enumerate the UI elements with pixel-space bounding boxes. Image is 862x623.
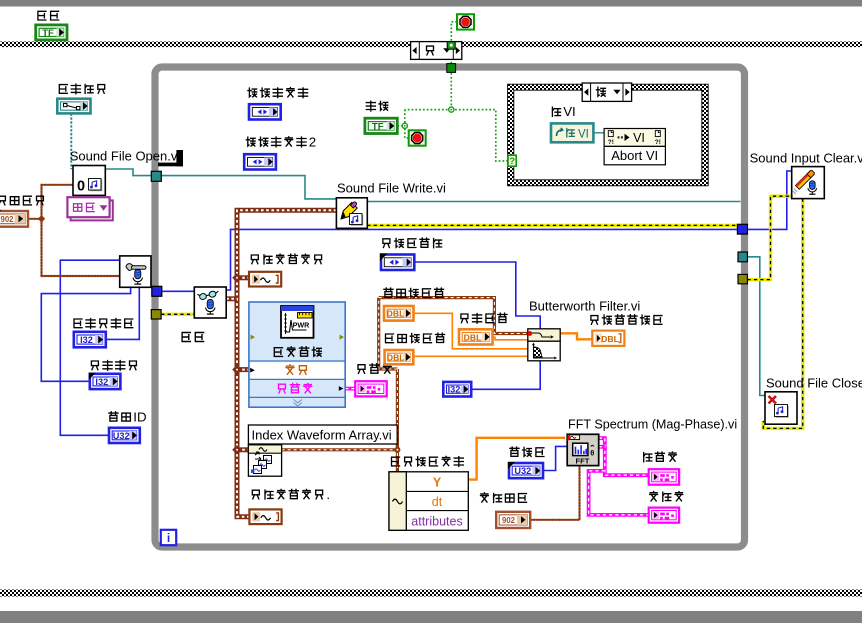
FFT Spectrum node icon bbox=[567, 434, 599, 465]
write mode ring constant (shadowed) bbox=[71, 200, 113, 220]
wire: blue task ID tunnel to Sound Input Read bbox=[162, 290, 195, 292]
TF control qidong (start) bbox=[36, 25, 67, 40]
Sound Input Clear icon bbox=[792, 167, 825, 199]
invoke node Abort VI bbox=[604, 129, 665, 147]
svg-text:PWR: PWR bbox=[293, 321, 311, 330]
svg-text:ID: ID bbox=[133, 409, 146, 424]
wire: green dotted from TF stop terminal bbox=[397, 125, 404, 127]
express VI side arrows bbox=[251, 335, 255, 340]
black corner bracket next to label bbox=[176, 150, 183, 166]
I32 order constant bbox=[443, 382, 471, 397]
wire: teal refnum Sound File Write to loop border bbox=[367, 201, 740, 203]
label device ID bbox=[109, 412, 118, 421]
wire: blue sample mode I32 to configure node bbox=[41, 287, 130, 381]
svg-text:dt: dt bbox=[432, 495, 443, 509]
wire: yellow-black dashed task id tunnel to Sound Input Read bbox=[161, 313, 194, 316]
wire: brown waveform jog bbox=[379, 298, 398, 369]
express VI icon PWR bbox=[281, 306, 314, 338]
wire: orange filtered waveform filter to indicator bbox=[560, 333, 592, 339]
svg-text:attributes: attributes bbox=[411, 514, 462, 528]
express VI title text bbox=[274, 348, 282, 357]
DBL low cutoff bbox=[385, 350, 414, 364]
label tab control bbox=[248, 88, 257, 97]
wire: brown waveform across to filter bbox=[379, 298, 528, 334]
label benVI bbox=[552, 107, 560, 116]
wire: file path (teal dashed) from path control to Sound File Open bbox=[70, 114, 72, 170]
wire: green dotted junction to stop terminal branch bbox=[405, 109, 452, 111]
while loop border bbox=[155, 67, 745, 547]
svg-text:Y: Y bbox=[433, 475, 442, 489]
label power spectrum (indicator) bbox=[358, 365, 365, 374]
while loop tunnel blue right bbox=[737, 224, 747, 234]
stop button icon top bbox=[457, 14, 474, 29]
wire: blue task ID Sound Input Read along loop to right tunnel bbox=[226, 229, 737, 290]
averaging parameters enum bbox=[496, 512, 530, 528]
while loop tunnel teal left bbox=[151, 171, 161, 181]
label file path bbox=[59, 85, 67, 94]
wire: brown waveform Index Waveform Array output bbox=[282, 448, 398, 451]
svg-text:Sound File Write.vi: Sound File Write.vi bbox=[337, 180, 446, 195]
svg-text:Index Waveform Array.vi: Index Waveform Array.vi bbox=[252, 427, 392, 442]
svg-text:DBL: DBL bbox=[387, 309, 405, 319]
wire: brown dotted to Sound File Open bbox=[42, 184, 74, 186]
wire: magenta phase out stub bbox=[599, 445, 605, 449]
? tunnel on inner case bbox=[508, 155, 516, 166]
wire: brown dotted riser bbox=[40, 185, 42, 276]
outer case selector label (false) bbox=[411, 42, 462, 60]
tab control terminal 1 bbox=[249, 104, 281, 119]
sound format enum constant bbox=[0, 211, 28, 227]
svg-text:Sound Input Clear.vi: Sound Input Clear.vi bbox=[750, 150, 862, 165]
label get waveform components bbox=[392, 457, 400, 466]
wire: orange low cutoff DBL to filter bbox=[414, 355, 528, 357]
svg-text:Sound File Open.vi: Sound File Open.vi bbox=[70, 148, 181, 163]
Butterworth Filter icon bbox=[528, 329, 560, 341]
wire: blue num channels I32 to configure node bbox=[106, 287, 140, 339]
power spectrum cluster indicator bbox=[355, 381, 387, 396]
label tab control 2 bbox=[246, 137, 255, 146]
wire: blue window U32 to FFT node bbox=[543, 446, 567, 470]
svg-text:.: . bbox=[326, 487, 330, 502]
svg-text:?!: ?! bbox=[655, 139, 661, 146]
while loop tunnel green solid bbox=[447, 64, 456, 73]
label qidong bbox=[38, 11, 46, 20]
wire: brown branch to Index Waveform Array bbox=[237, 447, 248, 452]
junction diamond brown 2 bbox=[232, 365, 242, 375]
wire: teal refnum Sound File Open to Sound File Write bbox=[105, 169, 336, 199]
label filter type bbox=[383, 239, 390, 248]
svg-text:I32: I32 bbox=[80, 335, 93, 345]
wire: orange Y component to FFT node bbox=[468, 438, 565, 480]
acquired signal waveform indicator bbox=[249, 272, 281, 287]
svg-text:U32: U32 bbox=[113, 431, 130, 441]
wire: brown branch Sound Input Read output to trunk bbox=[226, 296, 237, 301]
magnitude spectrum cluster indicator bbox=[649, 469, 679, 485]
tab control terminal 2 bbox=[244, 154, 276, 169]
while loop iteration terminal i bbox=[161, 530, 176, 545]
svg-text:FFT: FFT bbox=[576, 457, 590, 466]
junction node green 1 bbox=[449, 107, 454, 112]
expand chevron bbox=[294, 400, 302, 406]
label high cutoff bbox=[384, 288, 393, 297]
wire: blue device ID U32 to configure node bbox=[60, 260, 119, 435]
inner case selector label (true) bbox=[582, 83, 631, 101]
filtered waveform DBL array indicator bbox=[592, 331, 624, 346]
svg-text:DBL: DBL bbox=[464, 332, 482, 342]
svg-text:Butterworth Filter.vi: Butterworth Filter.vi bbox=[529, 299, 640, 314]
Sound Input Read icon bbox=[194, 287, 226, 318]
wire: green dotted down to red stop button 2 bbox=[405, 110, 409, 138]
DBL sampling frequency bbox=[459, 329, 493, 344]
wire: brown waveform riser to get waveform components bbox=[396, 369, 399, 472]
Index Waveform Array label box bbox=[248, 425, 397, 444]
label num channel samples bbox=[74, 319, 82, 328]
label phase spectrum bbox=[650, 492, 658, 501]
acquired signal dot waveform indicator bbox=[249, 509, 281, 524]
wire: blue order I32 to Butterworth filter bbox=[471, 361, 540, 390]
signal input row bbox=[250, 368, 255, 373]
top toolbar gray bar bbox=[0, 0, 862, 7]
TF control tingzhi (stop) bbox=[365, 118, 397, 133]
svg-text:DBL: DBL bbox=[387, 353, 405, 363]
wire: green dotted to inner case ? tunnel bbox=[451, 110, 508, 161]
phase spectrum cluster indicator bbox=[649, 508, 679, 523]
wire: brown branch to spectral measurement signal input bbox=[237, 367, 249, 372]
label sound format bbox=[0, 196, 5, 205]
label tingzhi bbox=[366, 101, 375, 111]
label acquired signal dot bbox=[252, 490, 259, 499]
svg-text:U32: U32 bbox=[514, 466, 531, 476]
junction brown waveform bbox=[394, 447, 400, 453]
junction diamond brown 1 bbox=[232, 273, 242, 283]
stop button icon near TF bbox=[409, 130, 426, 145]
power spectrum output row bbox=[279, 384, 286, 393]
U32 terminal device id bbox=[109, 428, 140, 443]
svg-text:i: i bbox=[167, 531, 170, 545]
filter type ring terminal bbox=[381, 255, 414, 271]
svg-text:VI: VI bbox=[633, 131, 645, 145]
label acquired signal bbox=[251, 255, 258, 264]
wire: brown dotted sound format enum bbox=[28, 218, 42, 220]
wire: blue task ID tunnel to Sound Input Clear bbox=[748, 171, 792, 229]
junction node green 2 bbox=[402, 123, 407, 128]
svg-text:Sound File Close: Sound File Close bbox=[766, 376, 862, 391]
Sound File Open icon bbox=[73, 166, 105, 196]
svg-text:902: 902 bbox=[502, 516, 516, 525]
while loop tunnel blue left bbox=[152, 286, 162, 296]
inner case structure checkered border bbox=[508, 84, 709, 186]
case tunnel green (hollow) on outer case border bbox=[447, 42, 455, 50]
wire: brown dotted to configure node bbox=[42, 275, 120, 277]
Index Waveform Array icon bbox=[248, 445, 281, 476]
svg-text:FFT Spectrum (Mag-Phase).vi: FFT Spectrum (Mag-Phase).vi bbox=[568, 417, 737, 431]
label averaging parameters bbox=[481, 493, 489, 502]
while loop tunnel olive right bbox=[738, 274, 747, 283]
junction diamond enum wire bbox=[38, 215, 45, 222]
wire: orange high cutoff DBL to filter bbox=[414, 313, 528, 349]
wire: blue filter type ring to Butterworth filter bbox=[414, 262, 540, 329]
red coercion arrow FFT bbox=[567, 435, 571, 441]
svg-text:θ: θ bbox=[590, 449, 594, 458]
label filtered waveform bbox=[591, 316, 598, 325]
this VI reference node bbox=[551, 123, 593, 142]
while loop tunnel teal right bbox=[738, 252, 747, 262]
svg-text:2: 2 bbox=[309, 134, 316, 149]
label magnitude spectrum bbox=[644, 453, 652, 462]
wire: brown dotted averaging parameters to FFT bbox=[531, 466, 580, 520]
Get Waveform Components node bbox=[389, 472, 468, 531]
label sample mode bbox=[91, 361, 98, 370]
svg-text:Abort VI: Abort VI bbox=[611, 148, 658, 163]
label sampling frequency bbox=[461, 314, 468, 323]
wire: yellow-black dashed tunnel to Sound Input Clear bbox=[748, 196, 792, 279]
wire: yellow-black dashed Sound Input Clear down to Sound File Close bbox=[763, 199, 802, 429]
label low cutoff bbox=[386, 334, 394, 343]
svg-text:DBL: DBL bbox=[601, 334, 619, 344]
while loop tunnel olive left bbox=[151, 310, 161, 319]
svg-text:?!: ?! bbox=[608, 139, 614, 146]
svg-text:TF: TF bbox=[372, 122, 384, 133]
svg-text:902: 902 bbox=[0, 215, 14, 224]
outer case structure top border (checkered) bbox=[0, 42, 862, 48]
svg-text:TF: TF bbox=[42, 28, 54, 39]
DBL high cutoff bbox=[384, 306, 414, 321]
wire: yellow-black dashed from Sound File Write to border bbox=[367, 224, 739, 227]
Sound File Write icon bbox=[336, 198, 367, 229]
bottom window gray bar bbox=[0, 611, 862, 623]
I32 terminal sample mode bbox=[90, 374, 121, 389]
svg-text:0: 0 bbox=[77, 179, 85, 195]
svg-text:VI: VI bbox=[578, 128, 589, 140]
wire: green boolean dotted from top stop button down through case tunnel bbox=[451, 22, 457, 110]
junction diamond brown 3 bbox=[232, 445, 242, 455]
Sound File Close icon bbox=[765, 392, 797, 424]
wire: orange sampling freq DBL to filter bbox=[493, 337, 528, 340]
svg-text:I32: I32 bbox=[95, 377, 108, 387]
U32 window terminal bbox=[509, 463, 543, 478]
I32 terminal num samples bbox=[74, 332, 106, 348]
wire: magenta cluster spectral measurement to power spectrum indicator bbox=[345, 387, 355, 391]
wire: teal refnum tunnel to Sound File Close bbox=[748, 257, 766, 396]
wire: magenta magnitude spectrum FFT to indicator bbox=[599, 438, 649, 475]
path control bbox=[57, 99, 90, 114]
label jieshu (order) bbox=[182, 333, 190, 342]
svg-text:I32: I32 bbox=[448, 385, 461, 395]
outer case structure bottom border (checkered) bbox=[0, 590, 862, 597]
wire: teal reference to invoke node bbox=[593, 132, 604, 134]
svg-text:?: ? bbox=[509, 156, 515, 167]
Sound Input Configure icon bbox=[120, 256, 151, 287]
svg-text:VI: VI bbox=[563, 104, 576, 119]
wire: brown branch to acquired signal indicator bbox=[237, 275, 249, 280]
wire: brown waveform-array trunk to Sound File Write bbox=[237, 210, 336, 517]
coercion dot red at filter bbox=[527, 331, 532, 336]
Spectral Measurement express VI body bbox=[249, 302, 345, 407]
wire: magenta phase spectrum to indicator bbox=[589, 471, 649, 515]
label window function bbox=[510, 447, 519, 456]
